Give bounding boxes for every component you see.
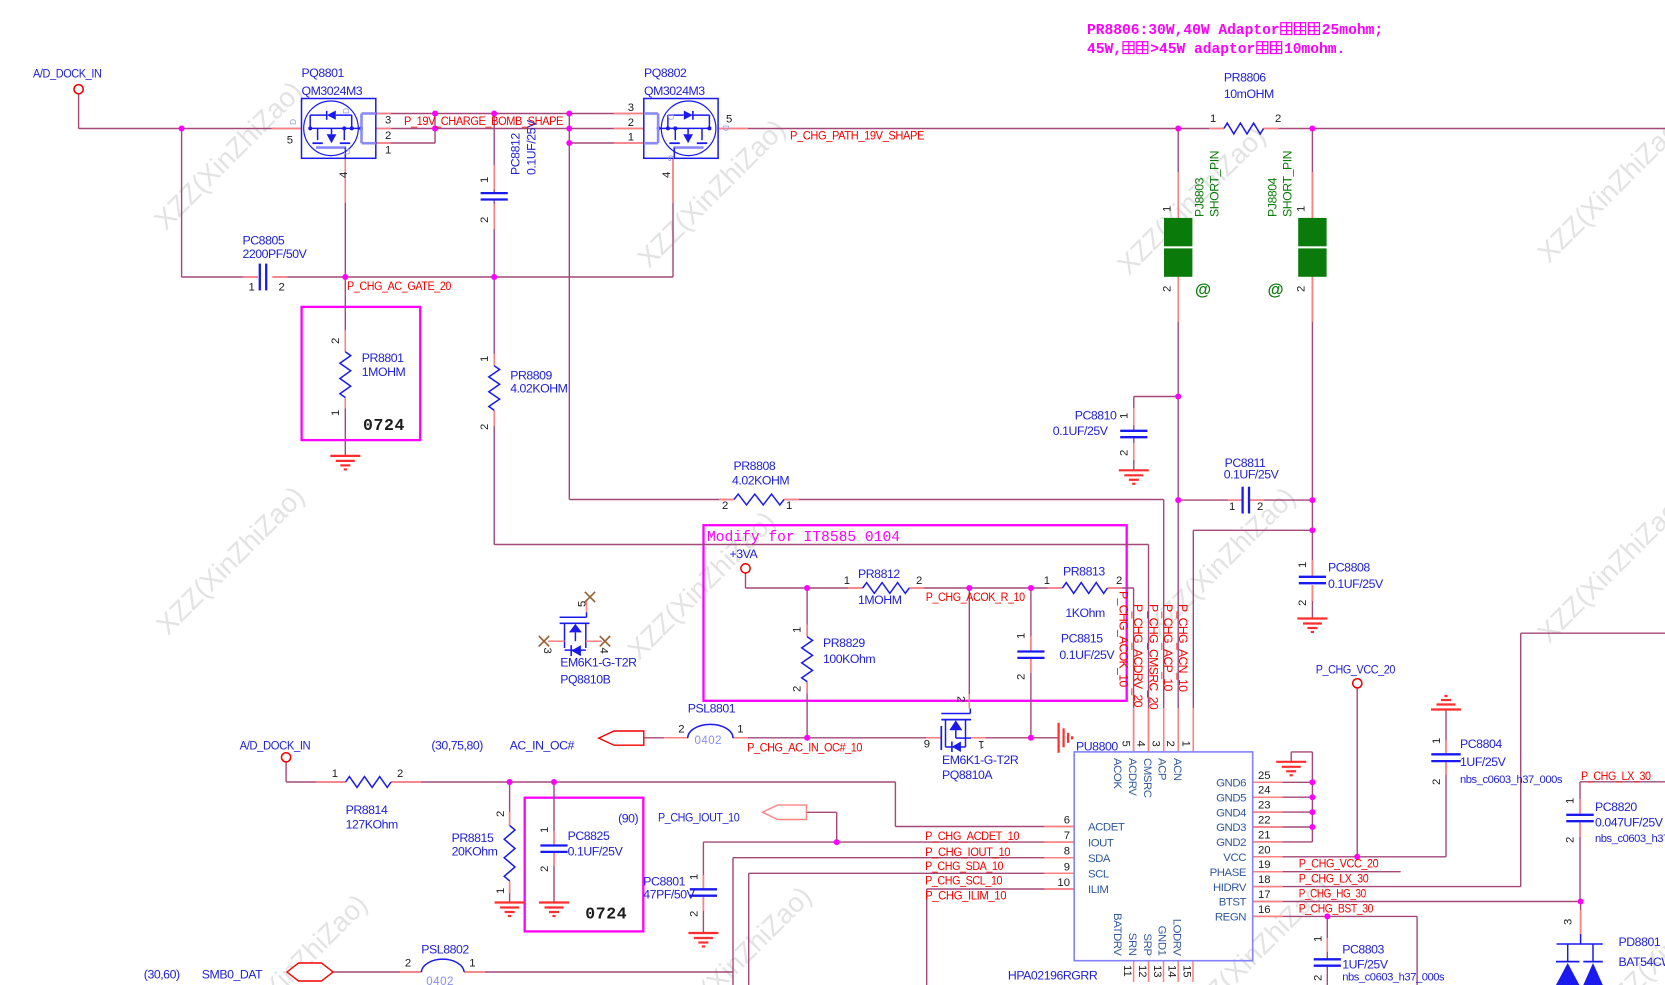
- svg-text:P_CHG_PATH_19V_SHAPE: P_CHG_PATH_19V_SHAPE: [790, 129, 924, 143]
- svg-text:1: 1: [479, 177, 491, 183]
- svg-text:1: 1: [249, 282, 255, 294]
- svg-text:PSL8801: PSL8801: [688, 702, 736, 716]
- svg-text:PQ8810A: PQ8810A: [942, 768, 993, 782]
- svg-text:1: 1: [1162, 206, 1174, 212]
- svg-text:@: @: [1268, 281, 1284, 299]
- svg-text:2: 2: [1297, 600, 1309, 606]
- svg-text:VCC: VCC: [1223, 852, 1246, 864]
- svg-text:PC8808: PC8808: [1328, 560, 1370, 574]
- svg-text:PU8800: PU8800: [1076, 740, 1118, 754]
- svg-text:G: G: [666, 155, 676, 161]
- svg-text:14: 14: [1166, 965, 1178, 978]
- svg-text:12: 12: [1136, 965, 1148, 978]
- svg-text:PR8809: PR8809: [510, 369, 552, 383]
- svg-text:1: 1: [1297, 562, 1309, 568]
- svg-text:D: D: [666, 114, 676, 120]
- svg-text:GND5: GND5: [1216, 792, 1246, 804]
- svg-text:P_CHG_ACDET_10: P_CHG_ACDET_10: [925, 829, 1020, 843]
- svg-text:2: 2: [405, 958, 411, 970]
- svg-text:20KOhm: 20KOhm: [452, 845, 498, 859]
- svg-text:3: 3: [385, 115, 391, 127]
- svg-text:1: 1: [1431, 738, 1443, 744]
- svg-text:D: D: [721, 125, 731, 131]
- svg-text:SMB0_DAT: SMB0_DAT: [202, 968, 263, 982]
- svg-text:SHORT_PIN: SHORT_PIN: [1281, 151, 1295, 217]
- svg-text:P_CHG_ACN_10: P_CHG_ACN_10: [1176, 604, 1190, 692]
- svg-text:5: 5: [287, 135, 293, 147]
- svg-text:1: 1: [330, 410, 342, 416]
- svg-text:1: 1: [1565, 798, 1577, 804]
- svg-text:2: 2: [1119, 450, 1131, 456]
- svg-text:9: 9: [1064, 861, 1070, 873]
- svg-text:11: 11: [1121, 965, 1133, 977]
- svg-text:REGN: REGN: [1215, 912, 1246, 924]
- svg-text:10mOHM: 10mOHM: [1224, 87, 1274, 101]
- svg-text:2: 2: [479, 424, 491, 430]
- svg-text:3: 3: [1150, 741, 1162, 747]
- svg-text:(90): (90): [618, 812, 638, 826]
- svg-text:2: 2: [916, 575, 922, 587]
- svg-text:0402: 0402: [695, 735, 723, 747]
- svg-text:9: 9: [924, 739, 930, 751]
- svg-text:ACP: ACP: [1156, 758, 1168, 780]
- svg-text:P_CHG_IOUT_10: P_CHG_IOUT_10: [925, 845, 1011, 859]
- svg-text:3: 3: [541, 648, 553, 654]
- svg-text:2: 2: [1431, 779, 1443, 785]
- svg-text:100KOhm: 100KOhm: [823, 652, 875, 666]
- svg-text:PQ8802: PQ8802: [644, 66, 687, 80]
- svg-text:P_CHG_BST_30: P_CHG_BST_30: [1299, 902, 1374, 916]
- svg-text:4: 4: [661, 172, 673, 178]
- svg-text:0.047UF/25V: 0.047UF/25V: [1595, 816, 1664, 830]
- svg-text:BTST: BTST: [1219, 897, 1247, 909]
- svg-text:5: 5: [726, 114, 732, 126]
- svg-text:1: 1: [1179, 741, 1191, 747]
- svg-text:1: 1: [844, 575, 850, 587]
- svg-text:PJ8803: PJ8803: [1193, 177, 1207, 217]
- svg-text:PR8829: PR8829: [823, 636, 865, 650]
- svg-text:127KOhm: 127KOhm: [346, 818, 398, 832]
- svg-text:1: 1: [628, 132, 634, 144]
- svg-text:10mohm.: 10mohm.: [1284, 42, 1345, 58]
- svg-text:1: 1: [332, 768, 338, 780]
- svg-text:PR8813: PR8813: [1063, 565, 1105, 579]
- svg-text:PC8805: PC8805: [243, 234, 285, 248]
- svg-text:2: 2: [1164, 741, 1176, 747]
- svg-text:0.1UF/25V: 0.1UF/25V: [1053, 424, 1109, 438]
- svg-text:2: 2: [539, 866, 551, 872]
- svg-text:2: 2: [722, 500, 728, 512]
- svg-text:nbs_c0603_h37_000s: nbs_c0603_h37_000s: [1460, 774, 1563, 786]
- svg-text:PR8812: PR8812: [858, 567, 900, 581]
- svg-text:2: 2: [397, 768, 403, 780]
- svg-text:2: 2: [955, 696, 967, 702]
- svg-text:PC8820: PC8820: [1595, 800, 1637, 814]
- svg-text:1: 1: [689, 874, 701, 880]
- svg-text:16: 16: [1258, 904, 1271, 916]
- svg-text:A/D_DOCK_IN: A/D_DOCK_IN: [33, 67, 102, 81]
- svg-text:1MOHM: 1MOHM: [858, 593, 902, 607]
- svg-text:2: 2: [1296, 286, 1308, 292]
- svg-text:P_CHG_CMSRC_20: P_CHG_CMSRC_20: [1146, 604, 1160, 710]
- svg-text:ILIM: ILIM: [1088, 884, 1108, 896]
- svg-text:1: 1: [1210, 113, 1216, 125]
- svg-text:4: 4: [598, 648, 610, 654]
- svg-text:SDA: SDA: [1088, 853, 1111, 865]
- svg-text:0.1UF/25V: 0.1UF/25V: [1059, 648, 1115, 662]
- svg-text:QM3024M3: QM3024M3: [302, 84, 363, 98]
- svg-text:P_CHG_ACOK_10: P_CHG_ACOK_10: [1117, 591, 1131, 687]
- svg-text:P_CHG_IOUT_10: P_CHG_IOUT_10: [658, 811, 740, 825]
- svg-text:P_CHG_ACDRV_20: P_CHG_ACDRV_20: [1131, 604, 1145, 708]
- svg-text:2: 2: [628, 117, 634, 129]
- svg-text:P_CHG_HG_30: P_CHG_HG_30: [1299, 887, 1367, 901]
- svg-text:1: 1: [385, 145, 391, 157]
- svg-text:nbs_c0603_h37: nbs_c0603_h37: [1595, 833, 1665, 845]
- svg-text:PC8812: PC8812: [509, 133, 523, 175]
- svg-text:1: 1: [1296, 206, 1308, 212]
- svg-text:5: 5: [1120, 741, 1132, 747]
- svg-text:GND4: GND4: [1216, 807, 1246, 819]
- svg-text:PQ8801: PQ8801: [302, 66, 345, 80]
- svg-text:+3VA: +3VA: [730, 547, 759, 561]
- svg-text:PR8806: PR8806: [1224, 71, 1266, 85]
- svg-text:SRP: SRP: [1141, 933, 1153, 955]
- svg-text:PC8810: PC8810: [1075, 408, 1117, 422]
- svg-text:P_CHG_LX_30: P_CHG_LX_30: [1299, 872, 1369, 886]
- svg-text:17: 17: [1258, 889, 1271, 901]
- svg-text:2: 2: [678, 724, 684, 736]
- svg-text:2: 2: [1016, 674, 1028, 680]
- svg-text:AC_IN_OC#: AC_IN_OC#: [510, 739, 575, 753]
- svg-text:0724: 0724: [363, 416, 405, 435]
- svg-text:BATDRV: BATDRV: [1111, 913, 1123, 956]
- svg-text:2: 2: [279, 282, 285, 294]
- svg-text:nbs_c0603_h37_000s: nbs_c0603_h37_000s: [1342, 972, 1445, 984]
- svg-text:2: 2: [385, 130, 391, 142]
- svg-text:P_CHG_SCL_10: P_CHG_SCL_10: [925, 874, 1003, 888]
- svg-text:2: 2: [1162, 286, 1174, 292]
- svg-text:24: 24: [1258, 785, 1271, 797]
- svg-text:P_CHG_ACOK_R_10: P_CHG_ACOK_R_10: [926, 590, 1026, 604]
- svg-text:3: 3: [628, 102, 634, 114]
- svg-text:1UF/25V: 1UF/25V: [1460, 755, 1507, 769]
- svg-text:1: 1: [1016, 633, 1028, 639]
- svg-text:15: 15: [1181, 965, 1193, 978]
- svg-text:A/D_DOCK_IN: A/D_DOCK_IN: [240, 739, 311, 753]
- svg-text:(30,75,80): (30,75,80): [431, 739, 483, 753]
- svg-text:PR8815: PR8815: [452, 831, 494, 845]
- svg-text:ACN: ACN: [1171, 758, 1183, 781]
- svg-text:2: 2: [330, 338, 342, 344]
- svg-text:1: 1: [479, 356, 491, 362]
- svg-text:ACDET: ACDET: [1088, 822, 1125, 834]
- svg-text:PD8801: PD8801: [1619, 935, 1661, 949]
- svg-text:EM6K1-G-T2R: EM6K1-G-T2R: [942, 753, 1019, 767]
- svg-text:CMSRC: CMSRC: [1141, 758, 1153, 798]
- svg-text:25: 25: [1258, 770, 1271, 782]
- svg-text:Modify for IT8585 0104: Modify for IT8585 0104: [707, 528, 900, 546]
- svg-text:1: 1: [1044, 575, 1050, 587]
- svg-text:4: 4: [1135, 741, 1147, 747]
- svg-text:PC8825: PC8825: [568, 829, 610, 843]
- svg-text:4.02KOHM: 4.02KOHM: [732, 474, 789, 488]
- svg-text:1: 1: [1119, 413, 1131, 419]
- svg-text:2: 2: [1275, 113, 1281, 125]
- svg-text:2: 2: [1313, 975, 1325, 981]
- svg-text:PJ8804: PJ8804: [1266, 177, 1280, 217]
- svg-text:SHORT_PIN: SHORT_PIN: [1208, 151, 1222, 217]
- svg-text:D: D: [341, 108, 351, 114]
- svg-text:P_19V_CHARGE_BOMB_SHAPE: P_19V_CHARGE_BOMB_SHAPE: [404, 114, 563, 128]
- svg-text:>45W adaptor: >45W adaptor: [1150, 42, 1255, 58]
- svg-text:2: 2: [792, 686, 804, 692]
- svg-text:PQ8810B: PQ8810B: [560, 673, 610, 687]
- svg-text:GND2: GND2: [1216, 837, 1246, 849]
- svg-text:P_CHG_ILIM_10: P_CHG_ILIM_10: [925, 889, 1007, 903]
- svg-text:45W,: 45W,: [1087, 42, 1122, 58]
- svg-text:PR8806:30W,40W Adaptor: PR8806:30W,40W Adaptor: [1087, 23, 1280, 39]
- svg-text:1: 1: [1313, 936, 1325, 942]
- svg-text:2: 2: [1565, 837, 1577, 843]
- svg-text:1MOHM: 1MOHM: [362, 365, 406, 379]
- svg-text:3: 3: [1563, 919, 1575, 925]
- svg-text:2200PF/50V: 2200PF/50V: [243, 247, 308, 261]
- svg-text:0402: 0402: [426, 976, 454, 985]
- svg-text:10: 10: [1057, 877, 1070, 889]
- svg-text:19: 19: [1258, 859, 1271, 871]
- svg-text:2: 2: [495, 811, 507, 817]
- svg-text:4.02KOHM: 4.02KOHM: [510, 382, 567, 396]
- svg-text:PC8804: PC8804: [1460, 737, 1502, 751]
- svg-text:1: 1: [978, 738, 984, 750]
- svg-text:2: 2: [1257, 501, 1263, 513]
- svg-text:2: 2: [479, 217, 491, 223]
- svg-text:QM3024M3: QM3024M3: [644, 84, 705, 98]
- svg-text:6: 6: [1064, 815, 1070, 827]
- svg-text:1KOhm: 1KOhm: [1065, 606, 1105, 620]
- svg-text:D: D: [288, 119, 298, 125]
- svg-text:ACOK: ACOK: [1111, 758, 1123, 789]
- svg-text:25mohm;: 25mohm;: [1322, 23, 1383, 39]
- svg-text:SCL: SCL: [1088, 869, 1109, 881]
- svg-text:P_CHG_AC_IN_OC#_10: P_CHG_AC_IN_OC#_10: [747, 741, 863, 755]
- svg-text:47PF/50V: 47PF/50V: [643, 887, 695, 901]
- svg-text:22: 22: [1258, 815, 1271, 827]
- svg-text:1: 1: [792, 627, 804, 633]
- svg-text:23: 23: [1258, 800, 1271, 812]
- svg-text:PR8814: PR8814: [346, 803, 388, 817]
- svg-text:0.1UF/25V: 0.1UF/25V: [568, 845, 624, 859]
- svg-text:P_CHG_ACP_10: P_CHG_ACP_10: [1161, 604, 1175, 691]
- svg-text:20: 20: [1258, 844, 1271, 856]
- svg-text:@: @: [1195, 281, 1211, 299]
- svg-text:1: 1: [737, 724, 743, 736]
- svg-text:0.1UF/25V: 0.1UF/25V: [1224, 468, 1280, 482]
- svg-text:IOUT: IOUT: [1088, 837, 1114, 849]
- svg-text:P_CHG_SDA_10: P_CHG_SDA_10: [925, 859, 1004, 873]
- svg-text:PC8815: PC8815: [1061, 632, 1103, 646]
- svg-text:P_CHG_AC_GATE_20: P_CHG_AC_GATE_20: [347, 279, 452, 293]
- svg-text:18: 18: [1258, 874, 1271, 886]
- svg-text:1: 1: [539, 827, 551, 833]
- svg-text:1UF/25V: 1UF/25V: [1342, 958, 1389, 972]
- svg-text:7: 7: [1064, 830, 1070, 842]
- svg-text:HIDRV: HIDRV: [1213, 882, 1247, 894]
- svg-text:8: 8: [1064, 846, 1070, 858]
- svg-text:HPA02196RGRR: HPA02196RGRR: [1008, 969, 1098, 983]
- svg-text:1: 1: [1229, 501, 1235, 513]
- svg-text:PR8808: PR8808: [734, 459, 776, 473]
- svg-text:G: G: [342, 149, 352, 155]
- svg-text:2: 2: [689, 911, 701, 917]
- svg-text:SRN: SRN: [1126, 933, 1138, 956]
- svg-text:ACDRV: ACDRV: [1126, 758, 1138, 796]
- svg-text:PR8801: PR8801: [362, 351, 404, 365]
- svg-text:P_CHG_LX_30: P_CHG_LX_30: [1581, 769, 1651, 783]
- svg-text:4: 4: [338, 172, 350, 178]
- svg-text:5: 5: [577, 601, 589, 607]
- svg-text:GND6: GND6: [1216, 778, 1246, 790]
- svg-text:1: 1: [495, 888, 507, 894]
- svg-text:0.1UF/25V: 0.1UF/25V: [1328, 577, 1384, 591]
- svg-text:PSL8802: PSL8802: [421, 943, 469, 957]
- svg-text:21: 21: [1258, 829, 1271, 841]
- svg-text:BAT54CW: BAT54CW: [1619, 955, 1665, 969]
- svg-text:1: 1: [469, 958, 475, 970]
- svg-text:P_CHG_VCC_20: P_CHG_VCC_20: [1316, 662, 1396, 676]
- svg-text:GND3: GND3: [1216, 822, 1246, 834]
- svg-text:0724: 0724: [585, 905, 627, 924]
- svg-text:PHASE: PHASE: [1210, 867, 1247, 879]
- svg-text:13: 13: [1151, 965, 1163, 978]
- svg-text:GND1: GND1: [1156, 926, 1168, 956]
- svg-text:1: 1: [786, 500, 792, 512]
- svg-text:EM6K1-G-T2R: EM6K1-G-T2R: [560, 656, 637, 670]
- svg-text:2: 2: [1116, 575, 1122, 587]
- svg-text:P_CHG_VCC_20: P_CHG_VCC_20: [1299, 857, 1379, 871]
- svg-text:LODRV: LODRV: [1171, 919, 1183, 957]
- svg-text:(30,60): (30,60): [144, 968, 180, 982]
- svg-text:PC8803: PC8803: [1342, 943, 1384, 957]
